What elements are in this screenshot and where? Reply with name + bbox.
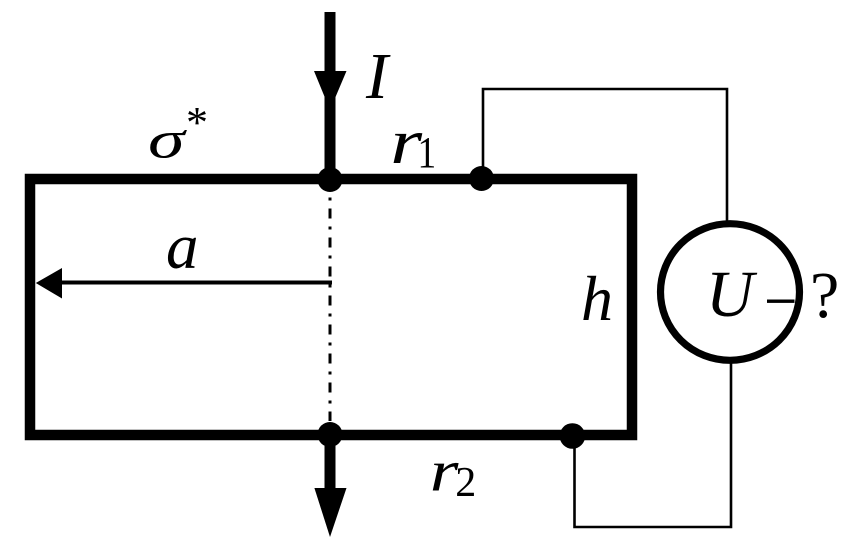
- svg-text:I: I: [365, 40, 391, 113]
- wire: r2 contact to voltmeter (thin): [575, 363, 732, 527]
- svg-text:U: U: [706, 258, 758, 331]
- wire: current lead-in shaft (top): [325, 12, 336, 179]
- node: bottom current junction: [318, 422, 343, 447]
- svg-text:?: ?: [810, 259, 839, 332]
- svg-text:r: r: [430, 440, 459, 504]
- voltmeter U: [661, 224, 800, 361]
- node: r1 voltage contact: [469, 166, 494, 191]
- dimension arrowhead a (pointing left): [36, 268, 62, 299]
- label minus dash: [767, 300, 795, 303]
- wire: current lead-out shaft (bottom): [325, 435, 336, 489]
- dimension arrow a (line): [60, 281, 332, 285]
- svg-text:a: a: [166, 211, 199, 283]
- svg-text:*: *: [186, 98, 208, 147]
- svg-text:h: h: [581, 263, 613, 334]
- node: top current junction: [318, 167, 343, 192]
- svg-text:σ: σ: [148, 110, 187, 168]
- svg-text:1: 1: [418, 128, 437, 176]
- node: r2 voltage contact: [560, 423, 586, 449]
- current arrowhead (bottom, pointing down): [314, 488, 346, 537]
- dash-dot axis line: [329, 198, 332, 422]
- current arrowhead I (top, pointing down): [314, 71, 347, 110]
- slab outline (thick rectangle conductor): [30, 179, 632, 435]
- svg-text:2: 2: [455, 460, 476, 506]
- wire: r1 contact to voltmeter (thin): [483, 89, 727, 222]
